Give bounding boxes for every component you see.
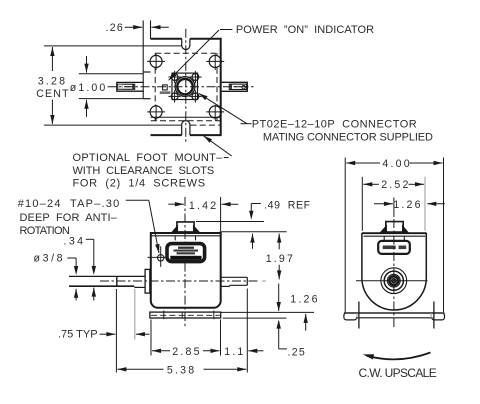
connector flange screw hole 3 xyxy=(171,93,178,100)
shaft end concentric circles xyxy=(381,268,407,294)
top clearance slot xyxy=(182,39,190,50)
foot mount plate (side view) xyxy=(150,312,221,318)
.34 down arrow xyxy=(92,266,96,275)
left shaft flange boss xyxy=(145,269,150,293)
connector flange square xyxy=(172,73,198,99)
tap hole for anti-rotation xyxy=(158,255,164,261)
svg-text:5.38: 5.38 xyxy=(167,364,196,376)
end view vertical centerline xyxy=(393,197,395,217)
flange top xyxy=(143,71,150,73)
svg-text:#10–24 TAP–.30: #10–24 TAP–.30 xyxy=(18,198,121,210)
bottom clearance slot xyxy=(182,121,190,136)
.75 right extension (light) xyxy=(134,289,136,340)
body top edge xyxy=(151,232,221,234)
body top second line xyxy=(151,235,221,237)
svg-text:CENT: CENT xyxy=(36,88,70,100)
vertical centerline through connector xyxy=(184,197,186,243)
1.26 down arrow xyxy=(278,284,280,312)
end view body outline xyxy=(362,233,426,310)
connector (side view) xyxy=(177,222,194,232)
right shaft keyway xyxy=(229,84,246,89)
side view horizontal centerline xyxy=(100,280,259,282)
plate slot tick left xyxy=(163,311,165,320)
corner mounting hole B xyxy=(209,55,221,67)
2.52 left extension xyxy=(361,177,363,231)
.49 down arrow xyxy=(249,211,253,220)
shaft bottom near flange xyxy=(134,286,145,288)
connector barrel inner circle xyxy=(177,79,192,94)
right shaft center hole xyxy=(242,86,245,89)
4.00 right extension xyxy=(443,158,445,313)
1.97 down arrow xyxy=(278,265,280,280)
svg-text:1.97: 1.97 xyxy=(266,253,295,265)
svg-text:MATING CONNECTOR SUPPLIED: MATING CONNECTOR SUPPLIED xyxy=(263,132,433,144)
shaft flat line + extension xyxy=(69,285,134,287)
body top extension line xyxy=(220,231,287,233)
top view horizontal centerline xyxy=(108,86,256,88)
flange left edge + .26 extension xyxy=(142,20,144,98)
svg-text:OPTIONAL FOOT MOUNT–: OPTIONAL FOOT MOUNT– xyxy=(73,152,224,164)
keyway centerline dash xyxy=(234,86,241,88)
connector barrel outer circle xyxy=(175,77,195,97)
right shaft end xyxy=(246,277,248,285)
plate top extension line xyxy=(221,311,315,313)
svg-text:ROTATION: ROTATION xyxy=(20,225,70,237)
right shaft (side view) xyxy=(221,276,248,278)
svg-text:1.1: 1.1 xyxy=(224,346,245,358)
right shaft (top view) xyxy=(221,82,247,91)
dia1.00 down arrow xyxy=(86,56,88,73)
dia1.00 top extension xyxy=(79,73,143,75)
.75/5.38 left extension xyxy=(115,289,117,373)
nameplate bottom band xyxy=(170,256,201,260)
1.1/5.38 right extension xyxy=(246,289,248,373)
dia3/8 up arrow xyxy=(75,289,77,301)
nameplate label xyxy=(167,244,205,262)
svg-text:1.26: 1.26 xyxy=(290,294,319,306)
flange bottom xyxy=(143,98,150,100)
plate slot line right xyxy=(433,302,435,329)
plate bottom extension line xyxy=(223,317,287,319)
power indicator lamp xyxy=(163,85,168,90)
dia3/8 down arrow xyxy=(74,266,78,275)
3.28 bottom extension line xyxy=(44,124,181,126)
plate slot tick right xyxy=(213,311,215,320)
shaft top + dia3/8 extension xyxy=(69,275,145,277)
connector flange screw hole 2 xyxy=(192,74,199,81)
connector (end view) xyxy=(386,222,403,232)
.34 up arrow xyxy=(93,288,95,301)
hidden plate inner edge xyxy=(151,116,221,118)
corner mounting hole C xyxy=(150,106,162,118)
svg-text:C.W. UPSCALE: C.W. UPSCALE xyxy=(359,366,437,380)
.49 extension from connector top xyxy=(196,221,264,223)
ACTIVE word blob xyxy=(383,246,396,250)
end view top edge xyxy=(362,232,427,234)
foot mount plate (end view) xyxy=(344,313,445,320)
end view horizontal centerline xyxy=(356,280,428,282)
plate slot line left xyxy=(358,302,360,329)
svg-text:2.52: 2.52 xyxy=(381,179,410,191)
connector flange screw hole 1 xyxy=(171,74,178,81)
1.42 right arrow xyxy=(222,203,239,205)
4.00 left extension xyxy=(344,158,346,313)
leader: POWER ON indicator xyxy=(220,29,232,31)
plate slot hidden edge xyxy=(181,312,183,318)
svg-text:.75 TYP: .75 TYP xyxy=(58,328,98,340)
dia1.00 up arrow xyxy=(86,100,88,117)
left shaft (top view) xyxy=(117,82,144,91)
.26 right extension (body edge ext) xyxy=(150,20,152,38)
svg-text:POWER ”ON” INDICATOR: POWER ”ON” INDICATOR xyxy=(236,24,374,36)
svg-text:.49 REF: .49 REF xyxy=(264,200,311,212)
svg-text:3.28: 3.28 xyxy=(38,75,67,87)
connector boss right xyxy=(195,236,197,241)
connector leader diagonal xyxy=(199,93,247,123)
1.26 up arrow below plate line xyxy=(305,314,307,331)
left shaft end xyxy=(116,276,118,287)
keyway centerline dash xyxy=(125,86,131,88)
svg-text:DEEP FOR ANTI–: DEEP FOR ANTI– xyxy=(20,212,118,224)
end view top second line xyxy=(364,235,426,237)
svg-text:.26: .26 xyxy=(106,22,125,34)
svg-text:1.42: 1.42 xyxy=(189,200,218,212)
3.28 up arrow xyxy=(51,47,53,71)
svg-text:PT02E–12–10P CONNECTOR: PT02E–12–10P CONNECTOR xyxy=(252,119,418,131)
side view body outline xyxy=(151,233,221,308)
top view body outline xyxy=(151,39,221,135)
plate hidden mid line xyxy=(151,314,220,316)
svg-text:ø3/8: ø3/8 xyxy=(34,252,66,264)
nameplate text row 3 xyxy=(177,252,196,254)
svg-text:1.26: 1.26 xyxy=(393,199,422,211)
2.52 right extension (light) xyxy=(424,177,426,231)
1.42 left arrow xyxy=(168,203,184,205)
corner mounting hole A xyxy=(150,55,162,67)
1.97 up arrow xyxy=(278,234,280,250)
svg-text:WITH CLEARANCE SLOTS: WITH CLEARANCE SLOTS xyxy=(73,165,215,177)
2.85 right extension xyxy=(220,320,222,356)
power leader diagonal xyxy=(169,30,219,80)
svg-text:4.00: 4.00 xyxy=(382,158,411,170)
ACTIVE END label xyxy=(378,241,410,254)
dia1.00 bottom extension xyxy=(79,98,143,100)
corner mounting hole D xyxy=(209,106,221,118)
right shaft flat bottom xyxy=(230,284,248,286)
connector flange screw hole 4 xyxy=(192,93,199,100)
connector boss left xyxy=(174,236,176,241)
END word blob xyxy=(399,246,407,250)
left shaft keyway xyxy=(118,84,135,89)
shaft end thread shading xyxy=(118,85,122,89)
.26 left arrow xyxy=(125,26,143,28)
leader: foot mount notch xyxy=(224,157,229,159)
3.28 down arrow xyxy=(51,100,53,125)
1.42 right extension (body edge ext) xyxy=(220,197,222,231)
top view: transducer body seen from above xyxy=(108,20,256,141)
top view vertical centerline xyxy=(185,29,187,142)
.49 up arrow below xyxy=(252,234,254,249)
3.28 top extension line xyxy=(44,45,182,47)
svg-text:ø1.00: ø1.00 xyxy=(70,82,108,94)
side view: transducer body side elevation xyxy=(69,197,266,327)
C.W. UPSCALE curved arrow xyxy=(367,353,431,360)
.26 right arrow xyxy=(152,26,169,28)
svg-text:2.85: 2.85 xyxy=(172,346,201,358)
svg-text:.34: .34 xyxy=(64,235,86,247)
hidden foot-mount plate (dashed) xyxy=(155,52,217,54)
2.85 left extension xyxy=(150,320,152,356)
svg-text:.25: .25 xyxy=(288,347,307,359)
leader: tap hole xyxy=(126,199,149,201)
end view: transducer seen from shaft end xyxy=(344,197,445,328)
nameplate text row 2 xyxy=(174,250,199,252)
nameplate text row 1 xyxy=(178,247,194,249)
svg-text:FOR (2) 1/4 SCREWS: FOR (2) 1/4 SCREWS xyxy=(73,177,206,189)
